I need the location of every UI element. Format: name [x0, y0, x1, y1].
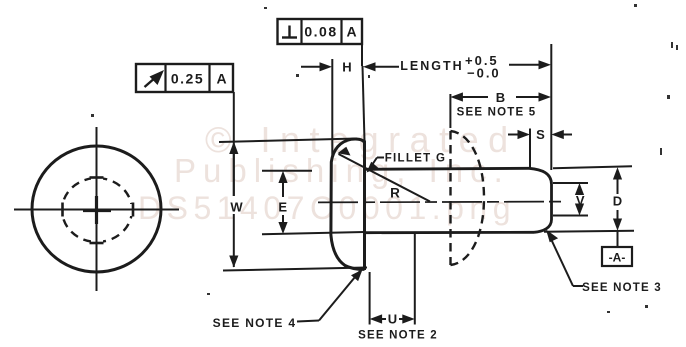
svg-text:SEE NOTE 3: SEE NOTE 3 — [582, 282, 662, 294]
svg-text:A: A — [216, 71, 226, 87]
svg-text:D: D — [613, 194, 622, 209]
svg-text:R: R — [390, 186, 400, 201]
svg-text:SEE NOTE 4: SEE NOTE 4 — [213, 316, 297, 330]
svg-text:-A-: -A- — [609, 251, 626, 265]
svg-text:0.08: 0.08 — [304, 24, 337, 40]
svg-text:A: A — [346, 24, 356, 40]
svg-text:S: S — [536, 127, 545, 142]
svg-text:LENGTH: LENGTH — [400, 59, 463, 73]
svg-text:W: W — [230, 200, 243, 215]
svg-text:SEE NOTE 5: SEE NOTE 5 — [457, 107, 537, 119]
svg-text:E: E — [278, 200, 287, 215]
svg-text:U: U — [388, 312, 397, 327]
svg-text:H: H — [342, 59, 351, 74]
svg-text:FILLET G: FILLET G — [385, 152, 447, 164]
svg-text:V: V — [576, 193, 585, 208]
svg-text:−0.0: −0.0 — [467, 66, 501, 81]
svg-text:SEE NOTE 2: SEE NOTE 2 — [358, 330, 438, 342]
svg-text:B: B — [496, 90, 505, 105]
svg-text:0.25: 0.25 — [171, 71, 204, 87]
